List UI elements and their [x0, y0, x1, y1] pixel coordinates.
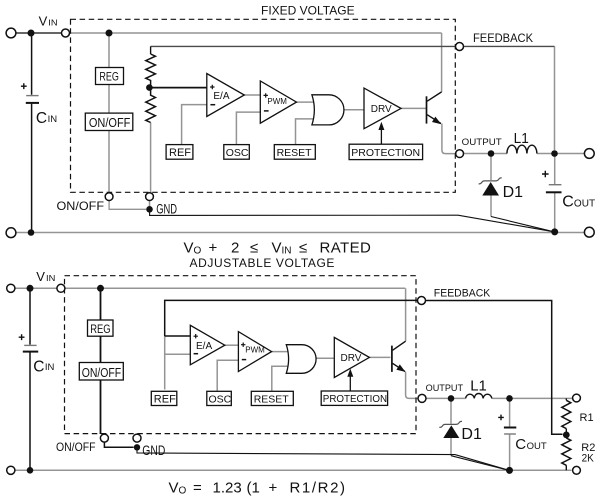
svg-text:REF: REF	[169, 147, 191, 159]
svg-text:OUTPUT: OUTPUT	[426, 383, 464, 393]
svg-text:FIXED VOLTAGE: FIXED VOLTAGE	[261, 4, 355, 18]
svg-text:≤: ≤	[299, 240, 307, 257]
svg-text:FEEDBACK: FEEDBACK	[473, 33, 533, 45]
svg-text:R1/R2): R1/R2)	[290, 480, 347, 497]
svg-text:ON/OFF: ON/OFF	[89, 115, 131, 130]
svg-text:+: +	[209, 240, 218, 257]
svg-text:C: C	[515, 436, 526, 453]
svg-text:REF: REF	[154, 394, 176, 406]
svg-text:2K: 2K	[582, 453, 595, 465]
svg-text:O: O	[179, 486, 187, 497]
svg-text:+: +	[269, 480, 278, 497]
svg-text:C: C	[562, 194, 574, 211]
svg-text:OSC: OSC	[209, 394, 232, 406]
svg-text:ON/OFF: ON/OFF	[82, 366, 122, 380]
svg-text:GND: GND	[142, 443, 165, 458]
svg-text:E/A: E/A	[196, 341, 212, 352]
svg-text:PWM: PWM	[267, 97, 287, 106]
svg-text:=: =	[193, 480, 202, 497]
svg-text:RESET: RESET	[277, 147, 313, 159]
svg-text:C: C	[36, 110, 47, 127]
svg-text:REG: REG	[99, 70, 119, 84]
svg-text:IN: IN	[46, 273, 55, 283]
svg-text:1.23: 1.23	[213, 480, 242, 497]
svg-text:OSC: OSC	[226, 147, 249, 159]
svg-text:V: V	[36, 269, 45, 284]
svg-text:D1: D1	[503, 184, 524, 201]
svg-text:D1: D1	[461, 426, 482, 443]
svg-text:GND: GND	[156, 202, 177, 217]
svg-text:2: 2	[231, 240, 239, 257]
svg-text:(1: (1	[247, 480, 260, 497]
svg-text:RATED: RATED	[320, 240, 372, 257]
svg-text:E/A: E/A	[213, 91, 229, 102]
svg-text:V: V	[39, 13, 48, 28]
svg-text:DRV: DRV	[341, 353, 362, 364]
svg-text:FEEDBACK: FEEDBACK	[434, 288, 491, 300]
svg-text:OUTPUT: OUTPUT	[462, 137, 502, 147]
svg-text:IN: IN	[48, 17, 57, 27]
svg-text:REG: REG	[90, 322, 110, 336]
svg-text:ON/OFF: ON/OFF	[56, 440, 96, 454]
svg-text:RESET: RESET	[254, 394, 290, 406]
svg-text:V: V	[272, 240, 282, 257]
svg-text:PWM: PWM	[245, 346, 265, 355]
svg-text:IN: IN	[48, 114, 58, 125]
svg-text:ADJUSTABLE VOLTAGE: ADJUSTABLE VOLTAGE	[190, 256, 336, 270]
svg-text:ON/OFF: ON/OFF	[57, 199, 105, 213]
svg-text:OUT: OUT	[527, 441, 547, 452]
svg-text:V: V	[169, 480, 179, 497]
svg-text:DRV: DRV	[371, 104, 392, 115]
svg-text:L1: L1	[514, 130, 529, 147]
svg-text:L1: L1	[470, 378, 487, 395]
svg-text:IN: IN	[45, 362, 55, 373]
svg-text:OUT: OUT	[574, 199, 595, 210]
svg-text:R1: R1	[580, 412, 594, 424]
svg-text:C: C	[33, 359, 44, 376]
svg-text:PROTECTION: PROTECTION	[323, 394, 387, 405]
svg-text:≤: ≤	[250, 240, 258, 257]
svg-text:V: V	[184, 240, 194, 257]
svg-text:PROTECTION: PROTECTION	[351, 147, 420, 159]
